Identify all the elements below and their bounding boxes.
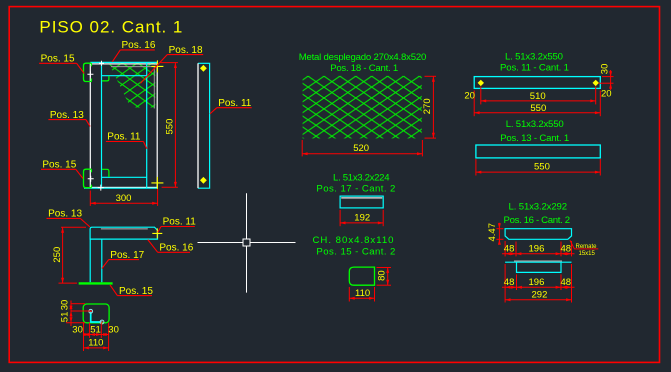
- dimension 550: [476, 159, 600, 176]
- svg-text:Pos. 11: Pos. 11: [163, 217, 197, 228]
- svg-text:CH. 80x4.8x110: CH. 80x4.8x110: [313, 235, 394, 246]
- frame top rail cyan line: [90, 61, 157, 63]
- rivet diamond left: [478, 80, 484, 86]
- svg-text:48: 48: [561, 243, 572, 254]
- svg-text:Pos. 16: Pos. 16: [122, 40, 156, 51]
- svg-text:Pos. 13: Pos. 13: [50, 110, 84, 121]
- green base plate (Pos.15 edge): [79, 282, 113, 284]
- svg-text:Metal desplegado 270x4.8x520: Metal desplegado 270x4.8x520: [299, 52, 427, 63]
- svg-text:Pos. 11: Pos. 11: [107, 132, 141, 143]
- rivet diamond top: [200, 65, 207, 72]
- svg-text:4.47: 4.47: [487, 223, 498, 242]
- Pos.13 white angle-bar outline: [90, 64, 157, 187]
- rivet diamond bottom: [200, 177, 207, 184]
- svg-text:110: 110: [355, 288, 370, 299]
- mesh panel gray edge top: [111, 66, 154, 68]
- white grip cross C: [98, 185, 104, 191]
- vertical post (Pos.17 side view): [90, 239, 102, 282]
- svg-text:L. 51x3.2x224: L. 51x3.2x224: [333, 172, 390, 183]
- leader Pos.11: [158, 227, 195, 233]
- svg-text:20: 20: [464, 90, 475, 101]
- dimension 250: [59, 227, 87, 283]
- svg-text:48: 48: [504, 243, 515, 254]
- white grip dots: [89, 309, 93, 313]
- svg-text:520: 520: [353, 143, 369, 154]
- svg-text:Pos. 13 - Cant. 1: Pos. 13 - Cant. 1: [500, 133, 569, 144]
- Pos.11 bar top view: [474, 77, 600, 89]
- svg-text:L. 51x3.2x550: L. 51x3.2x550: [505, 51, 563, 62]
- gray line above: [514, 260, 562, 262]
- mesh panel gray edge right: [153, 67, 155, 109]
- svg-text:250: 250: [52, 247, 63, 263]
- remate leader and note: [570, 240, 598, 249]
- dimension 520: [302, 140, 422, 156]
- leader Pos.18: [141, 55, 204, 84]
- yellow cross marker joint: [152, 228, 162, 238]
- yellow cross marker bottom-right: [151, 177, 163, 189]
- Pos.16 profile top (with end rebates): [505, 229, 571, 240]
- svg-text:48: 48: [504, 277, 515, 288]
- yellow cross marker top-right: [151, 60, 163, 72]
- frame inner top flange line: [102, 75, 147, 77]
- Pos.16 profile bottom (plan view): [505, 261, 571, 263]
- Pos.11 bar white edge line: [197, 63, 199, 188]
- leaders: [47, 218, 195, 295]
- dimension 110: [84, 338, 109, 351]
- frame left inner cyan stile: [101, 62, 103, 188]
- svg-text:Pos. 16 - Cant. 2: Pos. 16 - Cant. 2: [504, 215, 571, 226]
- leader Pos.15: [110, 285, 152, 296]
- svg-text:Remate: Remate: [576, 244, 598, 250]
- Pos.15 channel bracket bottom-left: [84, 169, 92, 188]
- svg-text:196: 196: [529, 243, 545, 254]
- dimension 192: [340, 210, 383, 226]
- svg-text:20: 20: [601, 89, 612, 100]
- white grip cross A: [87, 71, 93, 77]
- leader Pos.15 bottom: [41, 169, 83, 178]
- leader Pos.15 top: [39, 63, 84, 73]
- green step bottom inner corner: [102, 169, 109, 177]
- svg-text:196: 196: [529, 277, 545, 288]
- green plate outline: [83, 304, 109, 323]
- frame inner bottom flange line: [102, 176, 147, 178]
- horizontal dims 30/51/30: [84, 323, 109, 339]
- dimension 510 with 20 offsets: [474, 87, 600, 117]
- dimensions 48/196/48 bottom: [502, 264, 575, 290]
- leader Pos.13: [48, 120, 90, 127]
- Pos.11 bar side view outline: [198, 63, 210, 188]
- top bar (Pos.16 side view): [90, 227, 157, 239]
- Pos.17 bar: [340, 196, 383, 208]
- frame bottom rail cyan line: [84, 187, 158, 189]
- white grip cross B: [88, 176, 94, 182]
- svg-text:Pos. 18: Pos. 18: [169, 45, 203, 56]
- svg-text:Pos. 15: Pos. 15: [42, 160, 76, 171]
- svg-text:550: 550: [534, 162, 550, 173]
- svg-text:48: 48: [561, 277, 572, 288]
- svg-text:Pos. 17 - Cant. 2: Pos. 17 - Cant. 2: [316, 183, 395, 194]
- dimension 80: [377, 268, 392, 286]
- frame right inner cyan stile: [146, 62, 148, 188]
- white grip cross D: [99, 61, 104, 66]
- Pos.17 bar white inner line: [341, 197, 382, 199]
- svg-text:Pos. 15: Pos. 15: [41, 54, 75, 65]
- Pos.15 channel bracket top-left: [84, 63, 92, 81]
- svg-text:192: 192: [354, 212, 370, 223]
- svg-text:Pos. 11 - Cant. 1: Pos. 11 - Cant. 1: [500, 62, 569, 73]
- svg-text:550: 550: [165, 119, 176, 135]
- svg-text:30: 30: [108, 325, 119, 336]
- svg-text:510: 510: [530, 91, 546, 102]
- vertical dims 30/51: [66, 301, 92, 327]
- leader Pos.17: [102, 260, 139, 269]
- leader Pos.16: [148, 240, 190, 253]
- svg-text:30: 30: [600, 64, 611, 75]
- svg-text:Pos. 15 - Cant. 2: Pos. 15 - Cant. 2: [316, 246, 395, 257]
- dimension 44.7: [496, 223, 503, 244]
- svg-text:292: 292: [532, 289, 548, 300]
- dimension 550: [474, 112, 600, 114]
- svg-text:550: 550: [530, 103, 546, 114]
- svg-text:L. 51x3.2x550: L. 51x3.2x550: [506, 119, 564, 130]
- leader Pos.11 inner: [106, 142, 147, 149]
- svg-text:L. 51x3.2x292: L. 51x3.2x292: [509, 202, 568, 213]
- dimension 110: [349, 287, 374, 302]
- dimension 270: [425, 76, 437, 138]
- green step top inner corner: [102, 76, 109, 81]
- svg-text:270: 270: [422, 98, 433, 114]
- svg-text:Pos. 16: Pos. 16: [159, 243, 193, 254]
- svg-text:30: 30: [72, 325, 83, 336]
- svg-text:Pos. 17: Pos. 17: [110, 250, 144, 261]
- svg-text:80: 80: [377, 270, 388, 281]
- gray inner line: [101, 228, 148, 230]
- svg-text:51: 51: [90, 325, 101, 336]
- leader Pos.11 right bar: [210, 108, 252, 114]
- svg-text:110: 110: [88, 337, 103, 348]
- rivet diamond right: [593, 80, 599, 86]
- svg-text:300: 300: [116, 193, 132, 204]
- leader Pos.16: [112, 50, 155, 62]
- Pos.13 bar top view: [476, 145, 600, 158]
- leader Pos.13: [47, 218, 91, 227]
- svg-text:Pos. 13: Pos. 13: [48, 209, 82, 220]
- mesh hatch panel: [303, 76, 422, 138]
- svg-text:Pos. 15: Pos. 15: [119, 286, 153, 297]
- svg-text:51: 51: [59, 312, 70, 323]
- svg-text:Pos. 11: Pos. 11: [218, 98, 252, 109]
- dimension 30 (right, rivet offset): [599, 70, 614, 90]
- Pos.15 channel outline: [349, 267, 374, 285]
- frame hatch mesh (Pos.18 panel, partial): [109, 63, 156, 108]
- svg-text:30: 30: [59, 300, 70, 311]
- cyan angle section: [91, 311, 102, 322]
- svg-text:Pos. 18 - Cant. 1: Pos. 18 - Cant. 1: [330, 63, 398, 74]
- svg-text:PISO 02. Cant. 1: PISO 02. Cant. 1: [39, 18, 182, 37]
- dimension 292: [505, 290, 571, 303]
- dimensions 48/196/48 top: [502, 241, 575, 256]
- svg-text:15x15: 15x15: [579, 251, 596, 257]
